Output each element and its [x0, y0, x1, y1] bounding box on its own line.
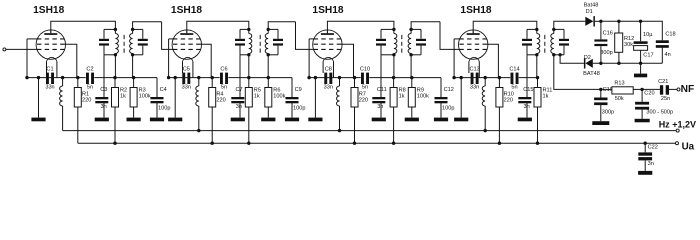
junction Ua bus: [644, 142, 647, 145]
junction: [314, 76, 317, 79]
svg-text:300p: 300p: [602, 109, 614, 115]
junction C17 top: [639, 20, 642, 23]
filament leg left V3: [322, 61, 324, 73]
svg-text:C1: C1: [46, 67, 53, 73]
IF transformer T1 primary coil: [114, 29, 116, 33]
IF transformer T2 primary top stub: [240, 28, 249, 30]
wire anode V4 to IF transformer: [473, 21, 537, 33]
capacitor C11 3n: [380, 55, 382, 97]
resistor R6 100k: [267, 55, 269, 78]
junction Ua bus: [211, 142, 214, 145]
svg-text:33n: 33n: [470, 85, 479, 91]
ground: [634, 74, 647, 78]
inductor cathode choke V1: [62, 78, 64, 86]
svg-text:C15: C15: [523, 87, 533, 93]
IF transformer T4 core: [544, 35, 546, 53]
IF transformer T1 secondary top stub: [133, 28, 143, 30]
IF transformer T3 secondary cap: [416, 39, 426, 41]
wire Ua bus: [78, 142, 676, 144]
IF transformer T3 secondary bottom stub: [411, 54, 421, 56]
node rail V3: [307, 76, 310, 79]
svg-text:1k: 1k: [254, 93, 260, 99]
svg-text:100p: 100p: [158, 106, 170, 112]
rail wire segment B: [228, 77, 292, 79]
IF transformer T2 primary top node: [247, 28, 250, 31]
svg-text:C10: C10: [360, 67, 370, 73]
svg-text:C4: C4: [160, 87, 167, 93]
capacitor C8 33n: [324, 73, 327, 84]
svg-text:10µ: 10µ: [643, 32, 653, 38]
svg-text:C7: C7: [236, 87, 243, 93]
rail wire segment B: [519, 77, 538, 79]
IF transformer T2 secondary top stub: [268, 28, 278, 30]
IF transformer T3 secondary top node: [409, 28, 412, 31]
wire detector bottom: [593, 62, 663, 64]
junction Ua bus: [498, 142, 501, 145]
resistor R13 50k: [601, 88, 612, 90]
resistor R12 30k: [618, 21, 620, 33]
capacitor C2 5n: [86, 73, 89, 84]
junction filament bus: [338, 129, 341, 132]
svg-text:C11: C11: [377, 87, 387, 93]
wire g2 of V4 to screen node: [487, 44, 499, 77]
filament leg right V4: [478, 61, 480, 77]
svg-text:100p: 100p: [442, 106, 454, 112]
IF transformer T1 primary bottom node: [114, 53, 117, 56]
filament leg left V4: [468, 61, 470, 73]
junction: [37, 76, 40, 79]
capacitor C6 5n: [220, 73, 223, 84]
svg-text:C22: C22: [648, 145, 658, 151]
svg-text:300p: 300p: [600, 50, 612, 56]
junction R12 bottom: [617, 62, 620, 65]
IF transformer T3 secondary top stub: [411, 28, 421, 30]
inductor cathode choke V2: [198, 78, 200, 86]
filament leg left V1: [46, 61, 48, 73]
svg-text:33n: 33n: [45, 85, 54, 91]
IF transformer T3 primary top stub: [381, 28, 394, 30]
filament leg right V2: [192, 61, 194, 77]
svg-text:220: 220: [82, 98, 91, 104]
ground: [405, 118, 419, 122]
svg-text:50k: 50k: [615, 96, 624, 102]
IF transformer T2 primary cap: [235, 39, 245, 41]
capacitor C4 100p: [156, 78, 158, 97]
IF transformer T1 primary cap: [99, 39, 109, 41]
capacitor C9 100p: [291, 78, 293, 97]
capacitor C21 25n: [642, 88, 660, 90]
electrolytic capacitor C17 10u: [640, 21, 642, 41]
IF transformer T4 secondary coil: [553, 29, 555, 33]
IF transformer T1 primary top node: [114, 28, 117, 31]
IF transformer T2 secondary top node: [267, 28, 270, 31]
ground: [518, 118, 532, 122]
inductor cathode choke V4: [484, 78, 486, 86]
resistor R10 220: [498, 78, 500, 88]
wire anode V1 to IF transformer: [51, 21, 116, 33]
ground: [127, 118, 141, 122]
resistor R7 220: [354, 78, 356, 88]
rail wire segment B: [94, 77, 157, 79]
wire to ground: [174, 78, 176, 118]
rail wire: [27, 77, 86, 79]
svg-text:4n: 4n: [665, 52, 671, 58]
IF transformer T1 secondary bottom node: [131, 53, 134, 56]
node rail V2: [167, 76, 170, 79]
svg-text:C2: C2: [86, 67, 93, 73]
resistor R8 1k: [393, 55, 395, 78]
svg-text:25n: 25n: [661, 96, 670, 102]
pentode V2 1SH18: [172, 30, 201, 62]
IF transformer T2 secondary cap: [273, 39, 283, 41]
resistor R11 1k: [536, 55, 538, 78]
svg-text:Hz +1,2V: Hz +1,2V: [659, 119, 696, 129]
IF transformer T4 secondary top node: [552, 28, 555, 31]
wire g3 of V3 to rail: [309, 38, 315, 40]
svg-text:1k: 1k: [120, 93, 126, 99]
junction screen node: [76, 76, 79, 79]
wire g2 of V1 to screen node: [64, 44, 76, 77]
wire: [619, 20, 641, 22]
svg-text:33n: 33n: [182, 85, 191, 91]
svg-text:220: 220: [504, 98, 513, 104]
IF transformer T2 primary coil: [248, 29, 250, 33]
svg-text:C13: C13: [469, 67, 479, 73]
wire to ground: [460, 78, 462, 118]
wire secondary to g1 of V4: [440, 22, 460, 50]
inductor cathode choke V3: [339, 78, 341, 86]
IF transformer T3 primary bottom node: [392, 53, 395, 56]
IF transformer T4 primary coil: [536, 29, 538, 33]
pentode V4 1SH18: [459, 30, 488, 62]
svg-text:5n: 5n: [511, 85, 517, 91]
junction Ua bus: [247, 142, 250, 145]
capacitor C15 3n: [526, 55, 528, 97]
junction Ua bus: [536, 142, 539, 145]
svg-text:C20: C20: [644, 90, 654, 96]
IF transformer T2 secondary bottom stub: [268, 54, 278, 56]
IF transformer T4 secondary bottom stub: [554, 54, 564, 56]
wire g3 of V2 to rail: [169, 38, 175, 40]
svg-text:100k: 100k: [139, 93, 151, 99]
wire anode V2 to IF transformer: [187, 21, 249, 33]
capacitor C10 5n: [361, 73, 364, 84]
svg-text:1k: 1k: [543, 93, 549, 99]
junction C19: [599, 88, 602, 91]
junction anode feed: [536, 76, 539, 79]
svg-text:220: 220: [359, 98, 368, 104]
wire to ground: [640, 63, 642, 73]
terminal NF: [677, 88, 680, 91]
wire input to g1: [6, 48, 37, 50]
filament leg right V1: [56, 61, 58, 77]
resistor R5 1k: [248, 55, 250, 78]
capacitor C5 33n: [182, 73, 185, 84]
wire to ground: [314, 78, 316, 118]
wire AGC from T4 secondary bottom: [554, 55, 601, 90]
IF transformer T3 secondary bottom node: [409, 53, 412, 56]
input terminal: [3, 48, 6, 51]
svg-text:C12: C12: [444, 87, 454, 93]
svg-text:C8: C8: [325, 67, 332, 73]
svg-text:100p: 100p: [293, 106, 305, 112]
svg-text:D1: D1: [586, 9, 593, 15]
svg-text:100k: 100k: [273, 93, 285, 99]
IF transformer T1 secondary cap: [138, 39, 148, 41]
IF transformer T4 primary bottom node: [535, 53, 538, 56]
svg-text:C16: C16: [603, 30, 613, 36]
svg-text:Bat48: Bat48: [584, 2, 599, 8]
IF transformer T2 secondary coil: [267, 29, 269, 33]
svg-text:5n: 5n: [87, 85, 93, 91]
svg-text:3n: 3n: [524, 104, 530, 110]
filament leg right V3: [333, 61, 335, 77]
IF transformer T4 primary bottom stub: [527, 54, 537, 56]
ground: [454, 118, 468, 122]
capacitor C13 33n: [471, 73, 474, 84]
rail wire segment B: [369, 77, 441, 79]
capacitor C14 5n: [511, 73, 514, 84]
IF transformer T1 secondary bottom stub: [133, 54, 143, 56]
IF transformer T4 primary top stub: [527, 28, 537, 30]
svg-text:220: 220: [216, 98, 225, 104]
junction anode feed: [392, 76, 395, 79]
svg-text:1SH18: 1SH18: [312, 5, 343, 16]
resistor R3 100k: [132, 55, 134, 78]
junction grid return: [267, 76, 270, 79]
junction grid return: [132, 76, 135, 79]
wire secondary to g1 of V2: [162, 22, 174, 50]
svg-text:1k: 1k: [399, 93, 405, 99]
svg-text:3n: 3n: [377, 104, 383, 110]
junction grid return: [410, 76, 413, 79]
svg-text:C5: C5: [183, 67, 190, 73]
svg-text:NF: NF: [681, 84, 695, 95]
ground: [308, 118, 322, 122]
IF transformer T3 core: [401, 35, 403, 53]
ground: [635, 119, 650, 123]
wire T1 secondary to next grid: [133, 22, 162, 30]
junction tap: [558, 53, 561, 56]
ground: [285, 118, 299, 122]
node rail V1: [25, 76, 28, 79]
wire anode V3 to IF transformer: [327, 21, 394, 33]
svg-text:C6: C6: [220, 67, 227, 73]
wire g3 of V1 to rail: [27, 38, 39, 40]
ground: [168, 118, 182, 122]
junction filament bus: [484, 129, 487, 132]
ground: [95, 118, 109, 122]
IF transformer T2 primary bottom node: [247, 53, 250, 56]
ground: [434, 118, 448, 122]
wire T4 secondary to detector D1: [554, 21, 586, 29]
capacitor C7 3n: [239, 55, 241, 97]
junction C20: [640, 88, 643, 91]
svg-text:BAT48: BAT48: [583, 71, 600, 77]
svg-text:100k: 100k: [417, 93, 429, 99]
IF transformer T2 primary bottom stub: [240, 54, 249, 56]
rail wire: [454, 77, 510, 79]
capacitor C19 300p: [600, 89, 602, 97]
junction Ua bus: [392, 142, 395, 145]
junction cathode coil: [61, 76, 64, 79]
junction ground stub: [639, 62, 642, 65]
junction R12 top: [617, 20, 620, 23]
svg-text:C9: C9: [295, 87, 302, 93]
junction anode feed: [247, 76, 250, 79]
diode D1 Bat48: [585, 17, 593, 26]
svg-text:3n: 3n: [648, 161, 654, 167]
resistor R1 220: [77, 78, 79, 88]
svg-text:C3: C3: [100, 87, 107, 93]
svg-text:C17: C17: [643, 53, 653, 59]
capacitor C12 100p: [440, 78, 442, 97]
IF transformer T1 primary bottom stub: [104, 54, 115, 56]
capacitor C20 300-500p: [641, 89, 643, 101]
junction: [174, 76, 177, 79]
IF transformer T1 secondary coil: [132, 29, 134, 33]
svg-text:1SH18: 1SH18: [460, 5, 491, 16]
junction Ua bus: [353, 142, 356, 145]
svg-text:Ua: Ua: [682, 141, 695, 152]
wire D1 cathode to node: [595, 20, 601, 22]
ground: [261, 118, 275, 122]
svg-text:5n: 5n: [362, 85, 368, 91]
capacitor C1 33n: [46, 73, 49, 84]
pentode V1 1SH18: [36, 30, 65, 62]
IF transformer T1 primary top stub: [104, 28, 115, 30]
capacitor C16 300p: [600, 21, 602, 39]
wire g2 of V2 to screen node: [200, 44, 211, 77]
rail wire: [169, 77, 220, 79]
wire to ground: [38, 78, 40, 118]
IF transformer T4 secondary top stub: [554, 28, 564, 30]
terminal Hz +1,2V: [676, 129, 679, 132]
IF transformer T4 primary cap: [522, 39, 532, 41]
IF transformer T1 core: [123, 35, 125, 53]
svg-text:3n: 3n: [101, 104, 107, 110]
IF transformer T4 secondary cap: [559, 39, 569, 41]
junction screen node: [211, 76, 214, 79]
ground: [231, 118, 245, 122]
svg-text:33n: 33n: [324, 85, 333, 91]
resistor R4 220: [211, 78, 213, 88]
resistor R2 1k: [114, 55, 116, 78]
svg-text:C21: C21: [658, 79, 668, 85]
ground: [31, 118, 45, 122]
junction C16 bottom: [599, 62, 602, 65]
diode D2 BAT48: [585, 59, 592, 68]
wire g2 of V3 to screen node: [341, 44, 354, 77]
resistor R9 100k: [410, 55, 412, 78]
wire g3 of V4 to rail: [454, 38, 461, 40]
node rail V4: [452, 76, 455, 79]
junction Ua bus: [113, 142, 116, 145]
svg-text:R13: R13: [614, 81, 624, 87]
wire secondary to g1 of V3: [296, 22, 314, 50]
IF transformer T2 core: [259, 35, 261, 53]
rail wire: [309, 77, 361, 79]
terminal Ua: [676, 142, 679, 145]
IF transformer T3 primary top node: [392, 28, 395, 31]
wire T2 secondary to next grid: [268, 22, 295, 30]
ground: [592, 121, 609, 125]
wire: [601, 20, 619, 22]
IF transformer T3 primary coil: [393, 29, 395, 33]
svg-text:3n: 3n: [236, 104, 242, 110]
wire Hz +1,2V bus: [63, 130, 677, 132]
ground: [372, 118, 386, 122]
IF transformer T4 secondary bottom node: [552, 53, 555, 56]
IF transformer T3 primary cap: [376, 39, 386, 41]
svg-text:C19: C19: [603, 87, 613, 93]
junction cathode coil: [338, 76, 341, 79]
IF transformer T4 primary top node: [535, 28, 538, 31]
wire T3 secondary to next grid: [411, 22, 440, 30]
junction cathode coil: [197, 76, 200, 79]
capacitor C3 3n: [103, 55, 105, 97]
capacitor C22 3n: [644, 143, 646, 152]
junction cathode coil: [484, 76, 487, 79]
IF transformer T1 secondary top node: [131, 28, 134, 31]
junction screen node: [353, 76, 356, 79]
IF transformer T2 secondary bottom node: [267, 53, 270, 56]
svg-text:30k: 30k: [624, 42, 633, 48]
svg-text:1SH18: 1SH18: [171, 5, 202, 16]
junction: [460, 76, 463, 79]
junction screen node: [498, 76, 501, 79]
wire to C18: [641, 21, 663, 40]
IF transformer T3 secondary coil: [410, 29, 412, 33]
pentode V3 1SH18: [313, 30, 342, 62]
svg-text:C14: C14: [509, 67, 519, 73]
node detector out: [599, 20, 602, 23]
junction anode feed: [113, 76, 116, 79]
IF transformer T3 primary bottom stub: [381, 54, 394, 56]
ground: [150, 118, 164, 122]
filament leg left V2: [182, 61, 184, 73]
ground: [638, 171, 652, 175]
svg-text:1SH18: 1SH18: [33, 5, 64, 16]
capacitor C18 4n: [656, 40, 669, 43]
svg-text:300 - 500p: 300 - 500p: [646, 110, 673, 116]
svg-text:5n: 5n: [221, 85, 227, 91]
junction filament bus: [197, 129, 200, 132]
svg-text:C18: C18: [665, 32, 675, 38]
